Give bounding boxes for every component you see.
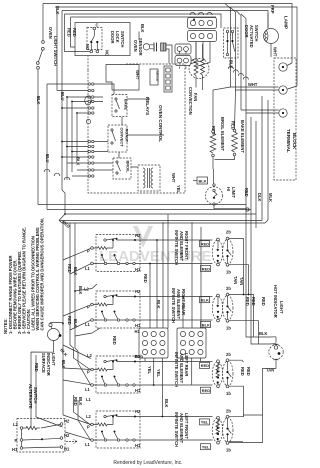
wires down from upper to hot light area (244, 263, 249, 295)
wire bus 2 (55, 7, 297, 86)
svg-text:INFINITE SWITCH: INFINITE SWITCH (174, 352, 179, 387)
connector block C (175, 44, 191, 54)
svg-text:RED: RED (34, 363, 39, 372)
svg-text:ACTUATED: ACTUATED (249, 25, 254, 48)
svg-text:SWITCH: SWITCH (33, 387, 38, 403)
svg-text:RED: RED (251, 297, 256, 306)
vertical 5 (71, 102, 73, 173)
wires into board (94, 84, 114, 94)
mid verticals upper (150, 215, 168, 329)
convection fan motor (189, 59, 209, 79)
svg-text:LIGHT: LIGHT (51, 353, 56, 366)
svg-text:2b: 2b (226, 409, 231, 414)
terminal block (274, 58, 296, 180)
svg-text:AND ELEMENT: AND ELEMENT (179, 231, 184, 262)
svg-text:LEFT REAR: LEFT REAR (184, 353, 189, 376)
svg-text:AR008: AR008 (155, 71, 159, 81)
svg-text:OVEN CONTROL: OVEN CONTROL (158, 105, 163, 142)
svg-text:H1: H1 (135, 267, 141, 272)
outer box (75, 23, 130, 56)
svg-text:1b: 1b (226, 391, 231, 396)
svg-text:2b: 2b (226, 286, 231, 291)
left bus verticals (62, 221, 64, 416)
vertical 4 (66, 97, 68, 180)
svg-text:BAKE ELEMENT: BAKE ELEMENT (240, 120, 245, 153)
svg-text:RED: RED (261, 297, 266, 306)
svg-text:1b: 1b (226, 326, 231, 331)
element right-side wires RF (229, 239, 249, 291)
NO NC (90, 41, 92, 43)
element bottom wires (213, 156, 235, 169)
contacts (42, 41, 45, 44)
svg-text:RED: RED (244, 188, 249, 197)
oven light switch (36, 4, 60, 205)
svg-text:RELAYS: RELAYS (145, 97, 150, 115)
wires to terminals (230, 87, 279, 90)
vertical BLU (46, 84, 48, 210)
svg-text:C: C (96, 23, 99, 28)
svg-text:L2: L2 (87, 353, 93, 358)
svg-text:RED: RED (202, 388, 210, 393)
svg-text:BLK: BLK (61, 360, 66, 369)
svg-text:CAN CAUSE IMPROPER AND DANGERO: CAN CAUSE IMPROPER AND DANGEROUS OPERATI… (40, 218, 45, 334)
stubs to board (47, 84, 88, 113)
bulb (143, 44, 149, 50)
svg-text:BROIL ELEMENT: BROIL ELEMENT (220, 117, 225, 151)
oven sensor (133, 24, 172, 64)
infinite switch left front (91, 411, 140, 448)
diagonals RR (63, 305, 91, 316)
svg-text:WHT: WHT (248, 82, 258, 87)
hi limit thermostat (205, 187, 222, 204)
svg-text:RIGHT REAR: RIGHT REAR (181, 289, 186, 315)
svg-text:H1: H1 (135, 443, 141, 448)
wire bends to right verticals (225, 4, 231, 88)
svg-text:NC: NC (105, 50, 110, 56)
svg-text:H2: H2 (135, 289, 141, 294)
feed wires (65, 14, 92, 52)
svg-text:L1: L1 (85, 266, 91, 271)
svg-text:RED: RED (202, 266, 210, 271)
wire down (42, 4, 44, 41)
bottom right frame (229, 369, 276, 443)
svg-text:BLU: BLU (45, 154, 50, 163)
vertical 2 (56, 11, 58, 91)
svg-text:DLK: DLK (257, 193, 262, 202)
svg-text:OVEN: OVEN (48, 27, 53, 39)
svg-text:MLK: MLK (268, 193, 273, 202)
element right-side wires RR (229, 295, 259, 345)
svg-text:BLK: BLK (201, 298, 209, 303)
svg-text:FAN: FAN (193, 93, 198, 101)
blade (38, 50, 42, 62)
wire bus 3 (62, 11, 268, 29)
svg-text:H1: H1 (64, 447, 70, 452)
hot indicator light lamp (269, 345, 283, 359)
element right rear (212, 293, 233, 322)
footer (113, 460, 182, 466)
svg-text:H2: H2 (64, 419, 70, 424)
transformer box (138, 165, 160, 191)
svg-text:LIGHT: LIGHT (279, 301, 284, 314)
top right components (175, 5, 297, 180)
node dot (193, 19, 195, 21)
diagonals RF (63, 248, 91, 260)
element left front (212, 415, 233, 444)
svg-text:H2: H2 (135, 409, 141, 414)
wire bus 5 (71, 16, 217, 18)
svg-text:SWITCH: SWITCH (120, 31, 125, 47)
infinite switch left rear (91, 356, 140, 393)
door lock switch (65, 14, 131, 56)
svg-text:SENSOR: SENSOR (138, 38, 143, 56)
part label box (150, 69, 158, 85)
inner dashed box (87, 28, 102, 50)
connector block E (139, 328, 168, 358)
svg-text:L1: L1 (85, 442, 91, 447)
element left rear (212, 359, 233, 388)
svg-text:DOOR: DOOR (110, 31, 115, 43)
svg-text:RIGHT FRONT: RIGHT FRONT (184, 231, 189, 260)
svg-text:BLOCK: BLOCK (292, 133, 297, 150)
switch to element wires RF (140, 239, 213, 241)
svg-text:RED: RED (67, 316, 72, 325)
svg-text:L1: L1 (86, 397, 92, 402)
svg-text:RED: RED (67, 264, 72, 273)
wires from blocks (191, 42, 210, 67)
svg-text:INFINITE SWITCH: INFINITE SWITCH (171, 288, 176, 323)
vertical 6 (76, 113, 78, 160)
svg-text:H2: H2 (135, 233, 141, 238)
svg-text:RED: RED (201, 363, 209, 368)
svg-text:YEL: YEL (176, 185, 181, 194)
upper frame bottom lines (38, 204, 246, 206)
svg-text:P: P (15, 438, 18, 443)
elements (193, 66, 273, 228)
connector box (161, 43, 167, 51)
svg-text:RED: RED (73, 397, 78, 406)
wires out (166, 45, 172, 64)
svg-text:AND ELEMENT: AND ELEMENT (179, 413, 184, 444)
svg-text:INFINITE SWITCH: INFINITE SWITCH (174, 412, 179, 447)
svg-text:H2: H2 (64, 433, 70, 438)
svg-text:H1: H1 (12, 447, 18, 452)
svg-text:BAKE: BAKE (124, 99, 129, 110)
svg-text:AND ELEMENT: AND ELEMENT (176, 289, 181, 320)
svg-text:SURFACE: SURFACE (41, 353, 46, 373)
grommet (85, 96, 91, 105)
relay CONV ROAST (108, 125, 127, 152)
connector strip (164, 66, 172, 92)
controller notched box (106, 65, 139, 91)
hot light feed rails (246, 209, 259, 344)
svg-text:YEL: YEL (202, 445, 210, 450)
LR right wires (229, 360, 244, 390)
outer right verticals (262, 96, 268, 220)
svg-text:LEADVENTURE: LEADVENTURE (99, 248, 212, 265)
surface light junction + diagonals LR (63, 368, 91, 385)
infinite switch right rear (91, 291, 140, 328)
svg-text:WHT: WHT (135, 70, 140, 80)
svg-text:RED: RED (201, 242, 209, 247)
svg-text:D1b: D1b (135, 354, 143, 359)
svg-text:CONVECTION: CONVECTION (188, 87, 193, 115)
svg-text:H1: H1 (135, 323, 141, 328)
svg-text:L1: L1 (85, 387, 91, 392)
svg-text:RED: RED (112, 336, 117, 345)
LF right wires (229, 415, 244, 442)
svg-text:P: P (87, 370, 90, 375)
svg-text:TERMINAL: TERMINAL (286, 129, 291, 153)
door actuated switch (224, 28, 239, 58)
lower section (61, 215, 212, 416)
svg-text:2b: 2b (226, 230, 231, 235)
svg-text:YEL: YEL (156, 369, 161, 378)
svg-text:Rendered by LeadVenture, Inc.: Rendered by LeadVenture, Inc. (113, 460, 182, 466)
svg-text:OVEN: OVEN (133, 40, 138, 52)
svg-text:H1: H1 (135, 388, 141, 393)
wire down (37, 69, 39, 204)
svg-text:L2: L2 (86, 414, 92, 419)
svg-text:INDICATOR: INDICATOR (46, 353, 51, 376)
svg-text:RED: RED (143, 274, 148, 283)
svg-text:BLU: BLU (60, 92, 65, 101)
svg-text:LAMP: LAMP (284, 16, 289, 29)
svg-text:1b: 1b (226, 270, 231, 275)
wires surface light (51, 323, 64, 353)
mid buses (38, 205, 268, 224)
oven lamp (264, 29, 279, 44)
alternate switch box (17, 419, 65, 453)
svg-text:DOOR: DOOR (244, 25, 249, 37)
wire bus 4 (65, 14, 222, 28)
svg-text:BLK: BLK (202, 322, 210, 327)
svg-text:WHT: WHT (273, 47, 278, 57)
svg-text:WHT: WHT (171, 173, 176, 183)
relay BAKE (112, 95, 127, 117)
svg-text:BLK: BLK (76, 157, 81, 166)
wires (21, 429, 23, 446)
vertical 3 (62, 11, 65, 215)
infinite switch right front (91, 235, 140, 272)
connector block F (177, 328, 206, 358)
plug bars (154, 43, 157, 52)
svg-text:YEL: YEL (201, 420, 209, 425)
connector block B (188, 31, 217, 42)
svg-text:H1: H1 (135, 329, 141, 334)
svg-text:BLK: BLK (55, 6, 60, 15)
svg-text:2b: 2b (226, 352, 231, 357)
switch to element wires LR/LF (140, 361, 213, 363)
LR zigzag (216, 363, 220, 378)
common contact (93, 27, 96, 30)
relay BROIL (113, 158, 131, 179)
junction dots (66, 96, 68, 98)
top buses (43, 4, 297, 114)
oven control board (88, 56, 185, 194)
svg-text:BROIL: BROIL (126, 161, 131, 174)
lower left (12, 323, 93, 453)
svg-text:TAN: TAN (233, 276, 238, 284)
svg-text:HOT INDICATOR: HOT INDICATOR (273, 285, 278, 318)
svg-text:HI: HI (226, 187, 231, 191)
svg-text:1b: 1b (226, 448, 231, 453)
svg-text:SWITCH: SWITCH (254, 25, 259, 41)
left wiring (44, 11, 114, 215)
svg-text:INFINITE SWITCH: INFINITE SWITCH (174, 230, 179, 265)
svg-text:BLK: BLK (36, 96, 41, 105)
hi-limit bottom wire (214, 205, 247, 208)
right vertical wires (245, 113, 247, 209)
svg-text:ALTERNATE: ALTERNATE (28, 384, 33, 409)
svg-text:RED: RED (72, 28, 77, 37)
svg-text:YEL: YEL (147, 366, 152, 375)
svg-text:PRP: PRP (270, 5, 275, 14)
board dashed outline (88, 64, 185, 193)
svg-text:LOCK: LOCK (115, 31, 120, 43)
mid verticals lower (145, 358, 162, 417)
svg-text:BLK: BLK (199, 179, 207, 184)
element right front (212, 237, 233, 266)
wire hops on verticals (228, 66, 248, 79)
connector block A (188, 18, 217, 29)
hops (44, 169, 70, 180)
svg-text:NO: NO (85, 44, 90, 51)
LF zigzag (216, 420, 220, 435)
svg-text:BLK: BLK (259, 331, 268, 336)
hop arcs (190, 12, 212, 15)
svg-text:RED: RED (246, 367, 251, 376)
watermark logo (99, 226, 212, 265)
svg-text:BLK: BLK (78, 397, 83, 406)
arrow (66, 440, 77, 444)
board edge plug circles (88, 83, 94, 177)
svg-text:LIMIT: LIMIT (231, 187, 236, 198)
fan diagonals (70, 336, 78, 363)
svg-text:AND ELEMENT: AND ELEMENT (179, 353, 184, 384)
wire bus 1 (43, 4, 292, 64)
svg-text:ROAST: ROAST (125, 129, 130, 143)
svg-text:CONVECT: CONVECT (120, 128, 125, 148)
svg-text:LEFT FRONT: LEFT FRONT (184, 413, 189, 439)
svg-text:BLK: BLK (164, 399, 169, 408)
connector block D (175, 56, 191, 66)
svg-text:L2: L2 (13, 422, 19, 427)
hi limit (213, 169, 215, 184)
svg-text:P: P (87, 425, 90, 430)
surface indicator light (48, 329, 60, 341)
svg-text:RED: RED (240, 367, 245, 376)
lower section part 2 (63, 209, 284, 453)
svg-text:BLK: BLK (140, 24, 145, 33)
notes (3, 218, 45, 334)
